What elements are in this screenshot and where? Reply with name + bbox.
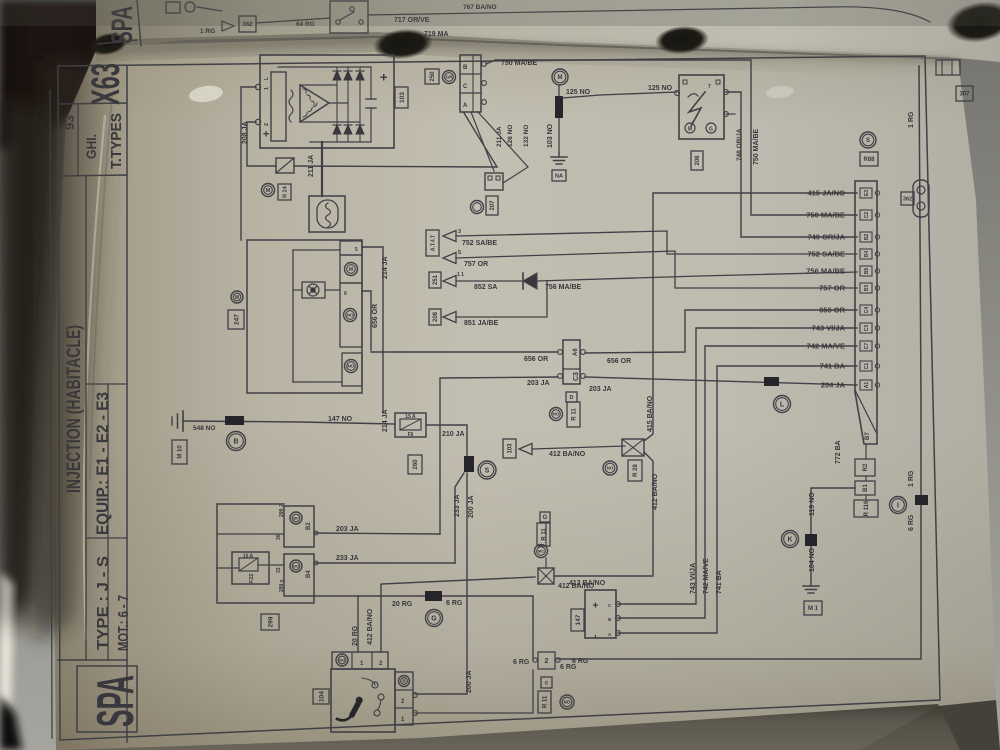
alternator 103 outer box bbox=[260, 55, 394, 148]
ref box 208 (sensor) bbox=[429, 309, 441, 325]
svg-text:G: G bbox=[709, 127, 713, 133]
splice 203 JA bbox=[764, 377, 779, 386]
switch contacts bbox=[372, 682, 378, 688]
svg-text:B4: B4 bbox=[306, 570, 312, 578]
ref box 247 bbox=[228, 310, 244, 329]
top-left dark corner bbox=[0, 0, 140, 150]
module edge pin circles bbox=[675, 91, 680, 96]
svg-text:1 RG: 1 RG bbox=[908, 470, 915, 487]
svg-text:C7: C7 bbox=[864, 343, 870, 350]
svg-text:132 NO: 132 NO bbox=[523, 125, 530, 147]
ECU pin B5 bbox=[860, 266, 872, 276]
circle NO (R28) bbox=[603, 461, 617, 475]
fuse F6 box bbox=[395, 413, 426, 437]
switch right connector bbox=[395, 672, 413, 725]
splice S bbox=[464, 456, 474, 472]
fuse F22 element bbox=[239, 558, 258, 571]
circle GR bbox=[443, 71, 456, 84]
svg-text:147: 147 bbox=[575, 614, 582, 625]
svg-text:B7: B7 bbox=[865, 432, 871, 440]
unit 247 outer box bbox=[247, 240, 362, 393]
svg-text:20 RG: 20 RG bbox=[352, 625, 359, 646]
crossing connector box bbox=[538, 568, 554, 584]
alternator bottom stub to motor bbox=[321, 142, 323, 196]
connector fan wire 126 NO bbox=[471, 112, 494, 171]
bottom-right page below shadow bbox=[860, 700, 1000, 750]
svg-text:851 JA/BE: 851 JA/BE bbox=[464, 320, 499, 327]
ref box 103 (triangle) bbox=[503, 439, 516, 458]
svg-text:R 28: R 28 bbox=[633, 464, 639, 477]
svg-text:412 BA/NO: 412 BA/NO bbox=[549, 451, 586, 458]
circle L bbox=[774, 396, 791, 413]
fuse F22 body bbox=[232, 552, 269, 584]
svg-text:362: 362 bbox=[903, 196, 912, 202]
ECU connector body bbox=[855, 181, 877, 444]
wire 656 OR left bbox=[371, 351, 558, 353]
svg-text:NO: NO bbox=[553, 412, 560, 417]
fuse F6 element bbox=[400, 419, 421, 430]
alternator diode bottom 2 bbox=[344, 125, 352, 134]
svg-text:EQUIP.: E1 - E2 - E3: EQUIP.: E1 - E2 - E3 bbox=[93, 392, 112, 535]
page spine line bbox=[50, 90, 52, 738]
svg-text:104: 104 bbox=[318, 691, 325, 702]
svg-text:NA: NA bbox=[555, 173, 563, 179]
wire 208 JA down to unit 247 bbox=[241, 87, 256, 240]
ref box 250 bbox=[425, 69, 439, 84]
svg-text:656 OR: 656 OR bbox=[372, 304, 379, 328]
previous page strip at top bbox=[96, 0, 1000, 62]
title divider below X63 bbox=[58, 103, 127, 104]
circle above ECU bbox=[860, 132, 876, 148]
svg-text:299 J: 299 J bbox=[279, 504, 285, 517]
svg-text:NO: NO bbox=[348, 364, 355, 369]
svg-text:1: 1 bbox=[264, 87, 270, 90]
wire 748 OR/JA to ECU bbox=[726, 92, 857, 237]
ground M10 (sideways) bbox=[182, 411, 184, 431]
wire 203/204 JA right bbox=[585, 377, 857, 385]
wire 125 NO to coil module bbox=[562, 92, 677, 98]
ref box 299 bbox=[261, 614, 279, 630]
splice 1/6 RG bbox=[915, 495, 928, 505]
svg-text:S: S bbox=[485, 468, 490, 475]
wire 852 SA to diode bbox=[456, 280, 523, 282]
circle B bbox=[227, 432, 246, 451]
ECU connector diagonal bbox=[855, 390, 876, 432]
svg-text:211 JA: 211 JA bbox=[496, 126, 503, 147]
battery 147 box bbox=[585, 590, 616, 638]
spine shadow bbox=[36, 60, 120, 640]
ref box AT4T bbox=[426, 230, 439, 256]
svg-text:415 JA/NO: 415 JA/NO bbox=[807, 189, 845, 198]
ECU pin E3 bbox=[860, 188, 872, 198]
connector 250 box bbox=[460, 55, 481, 112]
top right connector bbox=[936, 60, 960, 75]
small box c bbox=[541, 677, 552, 688]
switch key lever (black) bbox=[352, 700, 360, 715]
svg-text:C3: C3 bbox=[864, 325, 870, 332]
svg-text:307: 307 bbox=[959, 92, 970, 98]
ref box R28 bbox=[628, 460, 642, 481]
svg-text:GR: GR bbox=[446, 75, 454, 80]
diode bbox=[522, 273, 524, 289]
wire 656 OR vertical bbox=[362, 291, 371, 350]
svg-text:R 11: R 11 bbox=[543, 695, 549, 708]
svg-text:C3: C3 bbox=[573, 372, 580, 381]
ref box 147 bbox=[571, 609, 584, 631]
title column line C bbox=[107, 384, 109, 660]
circle M (247) bbox=[231, 291, 243, 303]
wire 200 JA down bbox=[415, 473, 467, 694]
svg-text:103: 103 bbox=[399, 92, 406, 103]
alternator stator delta winding bbox=[300, 85, 329, 122]
triangle connector 11 bbox=[443, 276, 456, 287]
svg-text:20 RG: 20 RG bbox=[392, 601, 413, 608]
fuse wires bbox=[217, 567, 239, 569]
splice 20 RG bbox=[425, 591, 442, 601]
svg-text:250: 250 bbox=[430, 71, 436, 82]
svg-text:741 BA: 741 BA bbox=[716, 570, 723, 594]
triangle 103 bbox=[519, 444, 532, 455]
ground 103 bbox=[558, 152, 560, 157]
small box G bbox=[540, 512, 550, 522]
svg-text:NO: NO bbox=[339, 657, 345, 662]
svg-text:R 11: R 11 bbox=[542, 528, 548, 541]
wire switch bottom pin bbox=[415, 670, 533, 713]
svg-text:756 MA/BE: 756 MA/BE bbox=[806, 267, 845, 276]
svg-text:C1: C1 bbox=[864, 363, 870, 370]
svg-text:750 MA/BE: 750 MA/BE bbox=[501, 60, 538, 67]
svg-text:200 JA: 200 JA bbox=[468, 495, 475, 518]
svg-text:L: L bbox=[780, 402, 785, 409]
actuator coil symbol bbox=[326, 203, 331, 227]
connector 362 (strip) bbox=[239, 16, 256, 32]
strip component small box bbox=[166, 2, 180, 13]
svg-text:A.T.4.T: A.T.4.T bbox=[430, 235, 436, 251]
wire 757 OR bbox=[456, 251, 857, 288]
alternator exciter coil bbox=[289, 90, 293, 122]
svg-text:119 NO: 119 NO bbox=[809, 492, 816, 516]
connector fan wire 132 NO bbox=[478, 112, 528, 183]
svg-text:752 SA/BE: 752 SA/BE bbox=[807, 250, 845, 259]
svg-text:B: B bbox=[233, 439, 238, 446]
alternator pin circles bbox=[255, 84, 260, 89]
svg-text:719 MA: 719 MA bbox=[424, 31, 449, 38]
svg-text:233 JA: 233 JA bbox=[454, 494, 461, 517]
link lines B7-R2-B1 bbox=[865, 444, 867, 459]
alternator phase line 3 bbox=[300, 121, 360, 123]
alternator regulator inner box bbox=[271, 72, 286, 141]
svg-text:K: K bbox=[787, 537, 792, 544]
ref box 251 bbox=[429, 272, 441, 288]
wire B2 feed bbox=[217, 533, 284, 535]
svg-text:852 SA: 852 SA bbox=[474, 284, 497, 291]
svg-text:B: B bbox=[463, 65, 468, 71]
wire 214 JA (top) bbox=[362, 247, 383, 413]
wire M to splice bbox=[558, 85, 560, 96]
ref box R24 bbox=[278, 184, 291, 200]
unit 247 middle cell bbox=[340, 283, 362, 347]
wire 750 MA/BE from pin B to ECU bbox=[486, 60, 857, 215]
circle M (R24) bbox=[262, 184, 275, 197]
svg-text:260: 260 bbox=[413, 459, 419, 470]
svg-text:299 e: 299 e bbox=[279, 579, 285, 592]
wire 412 triangle branch bbox=[532, 446, 625, 449]
svg-text:R 11: R 11 bbox=[572, 408, 578, 421]
svg-text:125 NO: 125 NO bbox=[566, 89, 591, 96]
idle actuator motor bbox=[309, 196, 345, 232]
svg-text:+: + bbox=[591, 602, 602, 608]
alternator inner bottom rail bbox=[310, 141, 371, 143]
svg-text:R68: R68 bbox=[863, 157, 875, 163]
svg-text:TYPE : J - S: TYPE : J - S bbox=[95, 556, 112, 650]
svg-text:M 1: M 1 bbox=[808, 606, 819, 612]
circle NO bottom bbox=[560, 695, 574, 709]
svg-text:6 RG: 6 RG bbox=[908, 514, 915, 531]
wire 741 BA bbox=[618, 366, 857, 633]
svg-text:D: D bbox=[570, 395, 574, 401]
svg-text:A: A bbox=[463, 103, 468, 109]
title divider above SPA bbox=[58, 659, 127, 661]
lamp wires bbox=[293, 289, 302, 291]
global left vignette bbox=[0, 0, 122, 630]
circle NO (C3) bbox=[550, 408, 563, 421]
small box D bbox=[566, 392, 577, 402]
svg-text:L: L bbox=[264, 77, 270, 80]
ignition module box bbox=[679, 75, 724, 139]
svg-text:S: S bbox=[866, 138, 870, 144]
wire 548/147 NO bbox=[183, 421, 395, 424]
svg-text:748 OR/JA: 748 OR/JA bbox=[736, 128, 743, 161]
svg-text:M: M bbox=[349, 267, 353, 273]
title divider EQUIP top bbox=[86, 383, 127, 385]
connector A6/C3 box bbox=[563, 340, 580, 384]
inline connector 362 bbox=[913, 180, 929, 217]
alternator diode top 3 bbox=[356, 71, 364, 80]
svg-text:I: I bbox=[897, 503, 899, 510]
svg-text:104 NO: 104 NO bbox=[809, 547, 816, 572]
strip triangle connector bbox=[222, 21, 234, 31]
connector B1 bbox=[855, 481, 875, 495]
svg-text:412 BA/NO: 412 BA/NO bbox=[367, 608, 374, 645]
svg-text:G: G bbox=[431, 616, 437, 623]
svg-text:656 OR: 656 OR bbox=[607, 358, 631, 365]
svg-text:752 SA/BE: 752 SA/BE bbox=[462, 240, 497, 247]
circle S bbox=[478, 461, 496, 479]
white page sliver bottom-left bbox=[0, 572, 14, 714]
binder hole shadow 3 top-right corner bbox=[943, 0, 1000, 48]
splice 104 NO bbox=[805, 534, 817, 546]
delta winding bumps bbox=[303, 89, 317, 117]
svg-text:M 10: M 10 bbox=[178, 445, 184, 459]
module circles M G bbox=[685, 123, 695, 133]
svg-text:6: 6 bbox=[344, 291, 347, 297]
ref box R11 (C3) bbox=[567, 402, 580, 427]
alternator phase line 2 bbox=[329, 102, 348, 104]
module corner pins bbox=[683, 80, 687, 84]
svg-text:415 BA/NO: 415 BA/NO bbox=[647, 395, 654, 432]
wire 1 RG main vertical bbox=[558, 66, 921, 659]
relay R28 coil box bbox=[622, 439, 644, 456]
svg-text:B3: B3 bbox=[864, 285, 870, 292]
title column line B bbox=[85, 176, 87, 660]
svg-text:MOT.: 6 - 7: MOT.: 6 - 7 bbox=[115, 595, 132, 651]
alternator inner top rail bbox=[278, 66, 371, 68]
wire 717 OR/VE bbox=[368, 7, 930, 22]
ECU pin B4 bbox=[860, 249, 872, 259]
left dark margin bbox=[0, 100, 60, 630]
svg-text:548 NO: 548 NO bbox=[193, 425, 215, 432]
svg-text:1 RG: 1 RG bbox=[200, 28, 215, 35]
svg-text:147 NO: 147 NO bbox=[328, 416, 353, 423]
svg-text:103 NO: 103 NO bbox=[547, 123, 554, 148]
svg-text:756 MA/BE: 756 MA/BE bbox=[545, 284, 582, 291]
wire 20 RG from pin 1 bbox=[314, 596, 358, 652]
wire 415 to ECU bbox=[644, 193, 857, 441]
svg-text:R 116: R 116 bbox=[864, 500, 870, 516]
wire bbox=[197, 7, 222, 11]
svg-text:743 VI/JA: 743 VI/JA bbox=[690, 563, 697, 594]
svg-text:214 JA: 214 JA bbox=[382, 256, 389, 279]
svg-text:750 MA/BE: 750 MA/BE bbox=[753, 128, 760, 165]
svg-text:126 NO: 126 NO bbox=[507, 125, 514, 147]
wire 203 JA to relay bbox=[314, 533, 440, 534]
ref box R11 (bottom) bbox=[538, 691, 551, 713]
actuator inner stadium bbox=[317, 200, 338, 228]
svg-text:R 24: R 24 bbox=[282, 185, 288, 198]
binder hole shadow 2 bbox=[654, 24, 710, 57]
ref box R11 (mid) bbox=[537, 523, 550, 546]
connector 250 pin circles bbox=[482, 62, 487, 67]
svg-text:103: 103 bbox=[508, 443, 514, 454]
svg-text:B4: B4 bbox=[864, 251, 870, 258]
ECU pin C2 bbox=[860, 210, 872, 220]
unit 247 lower cell bbox=[342, 353, 362, 386]
svg-text:A6: A6 bbox=[573, 348, 579, 356]
svg-text:210 JA: 210 JA bbox=[442, 431, 465, 438]
alternator diode bottom 3 bbox=[356, 125, 364, 134]
svg-text:B1: B1 bbox=[863, 484, 869, 492]
svg-text:M: M bbox=[235, 295, 239, 301]
wire 412 BA/NO from pin 2 bbox=[381, 577, 535, 652]
wire 233 JA bbox=[455, 473, 464, 563]
ignition switch main box bbox=[331, 669, 395, 732]
connector R2 bbox=[855, 459, 875, 476]
alternator phase line 1 bbox=[300, 84, 337, 86]
svg-text:203 JA: 203 JA bbox=[336, 526, 359, 533]
svg-text:743 VI/JA: 743 VI/JA bbox=[812, 324, 846, 333]
binder hole shadow 1 bbox=[372, 26, 435, 62]
wire 203 JA left bbox=[440, 377, 558, 534]
wire 233 JA to relay bbox=[314, 562, 455, 564]
svg-text:M: M bbox=[266, 188, 271, 194]
svg-text:204 JA: 204 JA bbox=[821, 381, 846, 390]
svg-text:749 OR/JA: 749 OR/JA bbox=[807, 233, 845, 242]
connector stub lines bbox=[545, 558, 547, 568]
wire 742 MA/VE bbox=[618, 346, 857, 618]
splice 147 NO bbox=[225, 416, 244, 425]
ref box 307 bbox=[956, 86, 973, 101]
wire 851 junction branch bbox=[456, 281, 547, 317]
svg-text:36: 36 bbox=[276, 534, 282, 540]
svg-text:412 BA/NO: 412 BA/NO bbox=[558, 583, 595, 590]
svg-text:6 RG: 6 RG bbox=[446, 600, 463, 607]
alternator right bus with capacitor bbox=[370, 67, 372, 99]
svg-text:207: 207 bbox=[490, 200, 496, 211]
ref box R116 bbox=[854, 500, 878, 517]
alternator diode top 1 bbox=[333, 71, 341, 80]
unit 247 M cell bbox=[340, 255, 362, 283]
junction box 2 bbox=[485, 173, 503, 190]
svg-text:125 NO: 125 NO bbox=[648, 85, 673, 92]
svg-text:15 A: 15 A bbox=[405, 414, 416, 420]
page edge highlight bbox=[84, 115, 105, 640]
svg-text:+: + bbox=[261, 131, 273, 137]
ref box NA bbox=[552, 170, 566, 181]
switch contact arcs bbox=[362, 678, 381, 710]
ECU pin A1 bbox=[860, 380, 872, 390]
svg-text:F22: F22 bbox=[249, 574, 255, 583]
svg-text:6 RG: 6 RG bbox=[560, 664, 577, 671]
alternator ref box 103 bbox=[395, 87, 408, 108]
svg-text:1 RG: 1 RG bbox=[908, 111, 915, 128]
lamp symbol bbox=[302, 282, 325, 298]
svg-text:208: 208 bbox=[695, 155, 701, 166]
soft top vignette bbox=[0, 0, 1000, 26]
svg-text:B5: B5 bbox=[864, 268, 870, 275]
svg-text:656 OR: 656 OR bbox=[524, 356, 548, 363]
svg-text:214 JA: 214 JA bbox=[382, 409, 389, 432]
svg-text:5: 5 bbox=[458, 250, 461, 256]
title block outer right border bbox=[126, 66, 128, 742]
svg-text:6 RG: 6 RG bbox=[513, 659, 530, 666]
wire 756 MA/BE to ECU bbox=[537, 272, 857, 281]
svg-text:NO: NO bbox=[347, 313, 354, 318]
svg-text:5: 5 bbox=[355, 247, 358, 253]
svg-text:C: C bbox=[463, 84, 468, 90]
wire splice to ground bbox=[558, 118, 560, 152]
svg-text:757 OR: 757 OR bbox=[819, 284, 845, 293]
svg-text:M: M bbox=[688, 127, 692, 133]
svg-text:772 BA: 772 BA bbox=[835, 440, 842, 464]
svg-text:7: 7 bbox=[708, 84, 711, 90]
ECU pin C4 bbox=[860, 305, 872, 315]
svg-text:757 OR: 757 OR bbox=[464, 261, 488, 268]
svg-text:SPA: SPA bbox=[87, 675, 145, 727]
wire F6 out to splice S bbox=[426, 425, 467, 456]
ECU pin C1 bbox=[860, 361, 872, 371]
svg-text:208 JA: 208 JA bbox=[242, 121, 249, 144]
triangle connector 5 bbox=[443, 253, 456, 264]
module pin stub bbox=[726, 113, 735, 115]
svg-text:208: 208 bbox=[433, 311, 439, 322]
ref box R68 bbox=[860, 152, 878, 166]
svg-text:NO: NO bbox=[607, 466, 614, 471]
svg-text:203 JA: 203 JA bbox=[527, 380, 550, 387]
svg-text:2: 2 bbox=[264, 123, 270, 126]
splice 125 NO bbox=[555, 96, 563, 118]
svg-text:299: 299 bbox=[267, 616, 274, 627]
svg-text:233 JA: 233 JA bbox=[336, 555, 359, 562]
alternator diode column 3 bbox=[359, 67, 361, 142]
unit 247 top pin cell bbox=[340, 241, 362, 255]
ref box 104 bbox=[313, 689, 329, 704]
circle G bbox=[426, 610, 443, 627]
wire bbox=[256, 18, 330, 23]
wire 656 OR right to ECU bbox=[585, 310, 857, 353]
switch top connector strip bbox=[332, 652, 388, 669]
svg-text:C2: C2 bbox=[864, 212, 870, 219]
black bottom-left corner bbox=[0, 696, 22, 750]
